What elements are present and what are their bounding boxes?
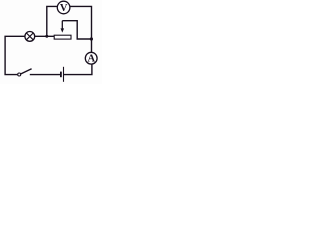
lamp X cross bbox=[26, 33, 33, 40]
wire lamp row left + left vertical + bottom-left wire to switch bbox=[5, 36, 25, 74]
wire top-left segment with left drop to lamp-row junction bbox=[47, 6, 58, 36]
switch S1 pivot circle bbox=[18, 73, 21, 76]
svg-text:A: A bbox=[88, 53, 96, 64]
wire top-right segment and right vertical down to ammeter top bbox=[70, 6, 92, 52]
background bbox=[0, 0, 102, 84]
wire rheostat slider bridge to right vertical bbox=[62, 21, 91, 39]
wire battery to bottom-right corner up to ammeter bottom bbox=[64, 64, 92, 75]
svg-text:V: V bbox=[60, 3, 68, 14]
node junction dot (bridge meets right vertical) bbox=[90, 37, 93, 40]
voltmeter U1 circle bbox=[57, 1, 70, 14]
lamp L1 circle bbox=[25, 32, 35, 42]
wire switch right contact to battery bbox=[30, 74, 60, 76]
wire lamp row right to rheostat box bbox=[35, 35, 55, 37]
switch S1 lever bbox=[21, 69, 32, 74]
rheostat slider arrow stem bbox=[61, 21, 63, 30]
node junction dot (voltmeter left tap) bbox=[45, 35, 48, 38]
battery BT1 long thin plate bbox=[63, 67, 65, 82]
battery BT1 short thick plate bbox=[60, 72, 62, 78]
rheostat R1 box bbox=[54, 35, 71, 39]
ammeter U2 circle bbox=[85, 52, 97, 64]
rheostat slider arrowhead bbox=[61, 28, 65, 32]
